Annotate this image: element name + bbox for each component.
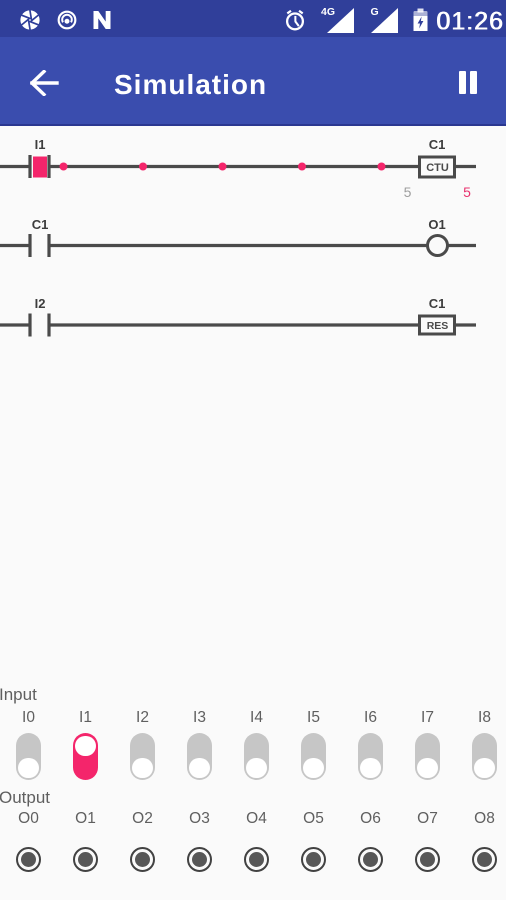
svg-text:CTU: CTU	[426, 162, 449, 174]
input I5 label	[307, 709, 320, 727]
output O8 label	[474, 810, 495, 828]
output O4 indicator	[244, 847, 270, 873]
input I1 label	[79, 709, 92, 727]
counter current value 5	[404, 184, 412, 200]
input I0 toggle switch (OFF)	[16, 733, 41, 780]
output O0 label	[18, 810, 39, 828]
output O2 label	[132, 810, 153, 828]
input I5 toggle switch (OFF)	[301, 733, 326, 780]
label I1	[35, 137, 46, 152]
output O6 indicator	[358, 847, 384, 873]
output O0 indicator	[16, 847, 42, 873]
label C1 over contact rung2	[32, 217, 49, 232]
input I7 label	[421, 709, 434, 727]
rung 3 wire	[0, 323, 30, 326]
label I2	[35, 296, 46, 311]
status icon: cast/record	[57, 10, 77, 30]
counter C1 CTU box	[420, 157, 455, 177]
rung 1 wire	[0, 165, 30, 168]
back arrow	[30, 70, 59, 96]
output O8 indicator	[472, 847, 498, 873]
status icon: alarm clock	[284, 9, 306, 32]
pause icon	[459, 71, 466, 94]
contact I2	[28, 314, 31, 337]
status icon: G signal	[366, 5, 400, 34]
app bar	[0, 37, 506, 126]
ladder diagram	[0, 0, 506, 680]
input I8 label	[478, 709, 491, 727]
output O5 label	[303, 810, 324, 828]
output O3 label	[189, 810, 210, 828]
contact I1 (closed, energized)	[33, 157, 47, 178]
input I6 toggle switch (OFF)	[358, 733, 383, 780]
output O6 label	[360, 810, 381, 828]
Input section label	[0, 685, 37, 705]
input I4 label	[250, 709, 263, 727]
input I4 toggle switch (OFF)	[244, 733, 269, 780]
counter preset value 5	[463, 184, 471, 200]
output O4 label	[246, 810, 267, 828]
status icon: screenshot/aperture	[20, 10, 40, 30]
input I8 toggle switch (OFF)	[472, 733, 497, 780]
status bar	[0, 0, 506, 37]
svg-text:RES: RES	[427, 320, 449, 332]
input I1 toggle switch (ON)	[73, 733, 98, 780]
input I2 toggle switch (OFF)	[130, 733, 155, 780]
input I7 toggle switch (OFF)	[415, 733, 440, 780]
output O7 label	[417, 810, 438, 828]
input I3 label	[193, 709, 206, 727]
power flow dots	[60, 163, 68, 171]
reset C1 RES box	[420, 316, 455, 334]
input I3 toggle switch (OFF)	[187, 733, 212, 780]
input I2 label	[136, 709, 149, 727]
output O1 indicator	[73, 847, 99, 873]
contact C1	[28, 234, 31, 257]
Output section label	[0, 788, 50, 808]
status icon: battery charging	[413, 8, 428, 32]
input I6 label	[364, 709, 377, 727]
output O3 indicator	[187, 847, 213, 873]
title Simulation	[114, 69, 267, 101]
label O1	[428, 217, 445, 232]
output O7 indicator	[415, 847, 441, 873]
label C1 over CTU	[429, 137, 446, 152]
status icon: 4G signal	[320, 5, 356, 34]
output coil O1	[428, 236, 448, 256]
label C1 over RES	[429, 296, 446, 311]
output O5 indicator	[301, 847, 327, 873]
output O2 indicator	[130, 847, 156, 873]
output O1 label	[75, 810, 96, 828]
input I0 label	[22, 709, 35, 727]
status time	[436, 8, 504, 37]
status icon: N logo	[93, 11, 111, 29]
rung 2 wire	[0, 244, 30, 247]
